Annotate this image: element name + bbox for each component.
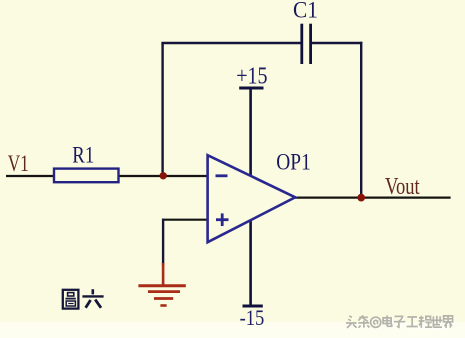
resistor R1 (54, 169, 119, 183)
圖 middle bar (65, 298, 75, 300)
wm-highlight 世 (432, 317, 443, 328)
圖 bottom 回 (66, 301, 75, 306)
六 left leg (86, 300, 91, 308)
label 圖六 (figure six), hand drawn glyphs (63, 290, 79, 309)
watermark toutiao (vector approximation) (346, 315, 454, 329)
wire: feedback vertical right down to output node (360, 42, 362, 198)
wm 条 (358, 315, 369, 327)
svg-text:R1: R1 (72, 143, 94, 168)
wm 工 (407, 317, 418, 327)
svg-text:V1: V1 (8, 151, 29, 176)
wm @ (371, 317, 381, 327)
svg-text:C1: C1 (293, 0, 318, 22)
wire: non-inverting down to ground (162, 219, 164, 266)
+15 supply lead (249, 88, 252, 176)
wm-highlight 程 (420, 317, 434, 329)
op-amp minus sign (216, 174, 228, 177)
capacitor C1 (302, 24, 311, 64)
wm 界 (444, 316, 453, 328)
wm-highlight 电 (384, 316, 393, 327)
+15 supply bar (239, 87, 263, 90)
wm 程 (419, 316, 433, 328)
-15 supply lead (249, 220, 252, 306)
六 top tick (92, 289, 95, 294)
wm-highlight 工 (408, 318, 419, 328)
wire: feedback top horizontal (161, 42, 301, 44)
wire: input V1 to R1 (6, 175, 54, 177)
wire: R1 to inverting node (118, 175, 208, 177)
wm 子 (394, 316, 405, 327)
ground (138, 263, 185, 306)
wire: op-amp output to right edge (295, 197, 451, 199)
wm 世 (431, 316, 442, 327)
svg-text:Vout: Vout (385, 174, 420, 200)
node A: inverting input junction (160, 172, 167, 179)
wm-highlight 界 (445, 317, 454, 329)
六 right leg (95, 300, 101, 308)
圖 inner top 口 (68, 293, 74, 296)
六 horizontal bar (82, 295, 103, 297)
wire: C1 right plate to corner (311, 42, 362, 44)
-15 supply bar (243, 305, 263, 308)
wm-highlight 子 (395, 317, 406, 328)
svg-text:-15: -15 (240, 305, 265, 330)
wire: feedback vertical left (161, 43, 163, 176)
wm-highlight 头 (347, 317, 358, 329)
wm-highlight 条 (359, 316, 370, 328)
wire: non-inverting input horizontal (162, 219, 208, 221)
wm-highlight @ (372, 318, 382, 328)
svg-text:OP1: OP1 (276, 150, 311, 175)
node B: output junction (357, 194, 365, 202)
wm 头 (346, 316, 357, 328)
op-amp OP1 triangle (208, 155, 296, 242)
wm 电 (383, 315, 392, 326)
圖 outer box (63, 290, 79, 309)
svg-text:+15: +15 (236, 64, 267, 90)
op-amp plus sign (216, 213, 229, 226)
